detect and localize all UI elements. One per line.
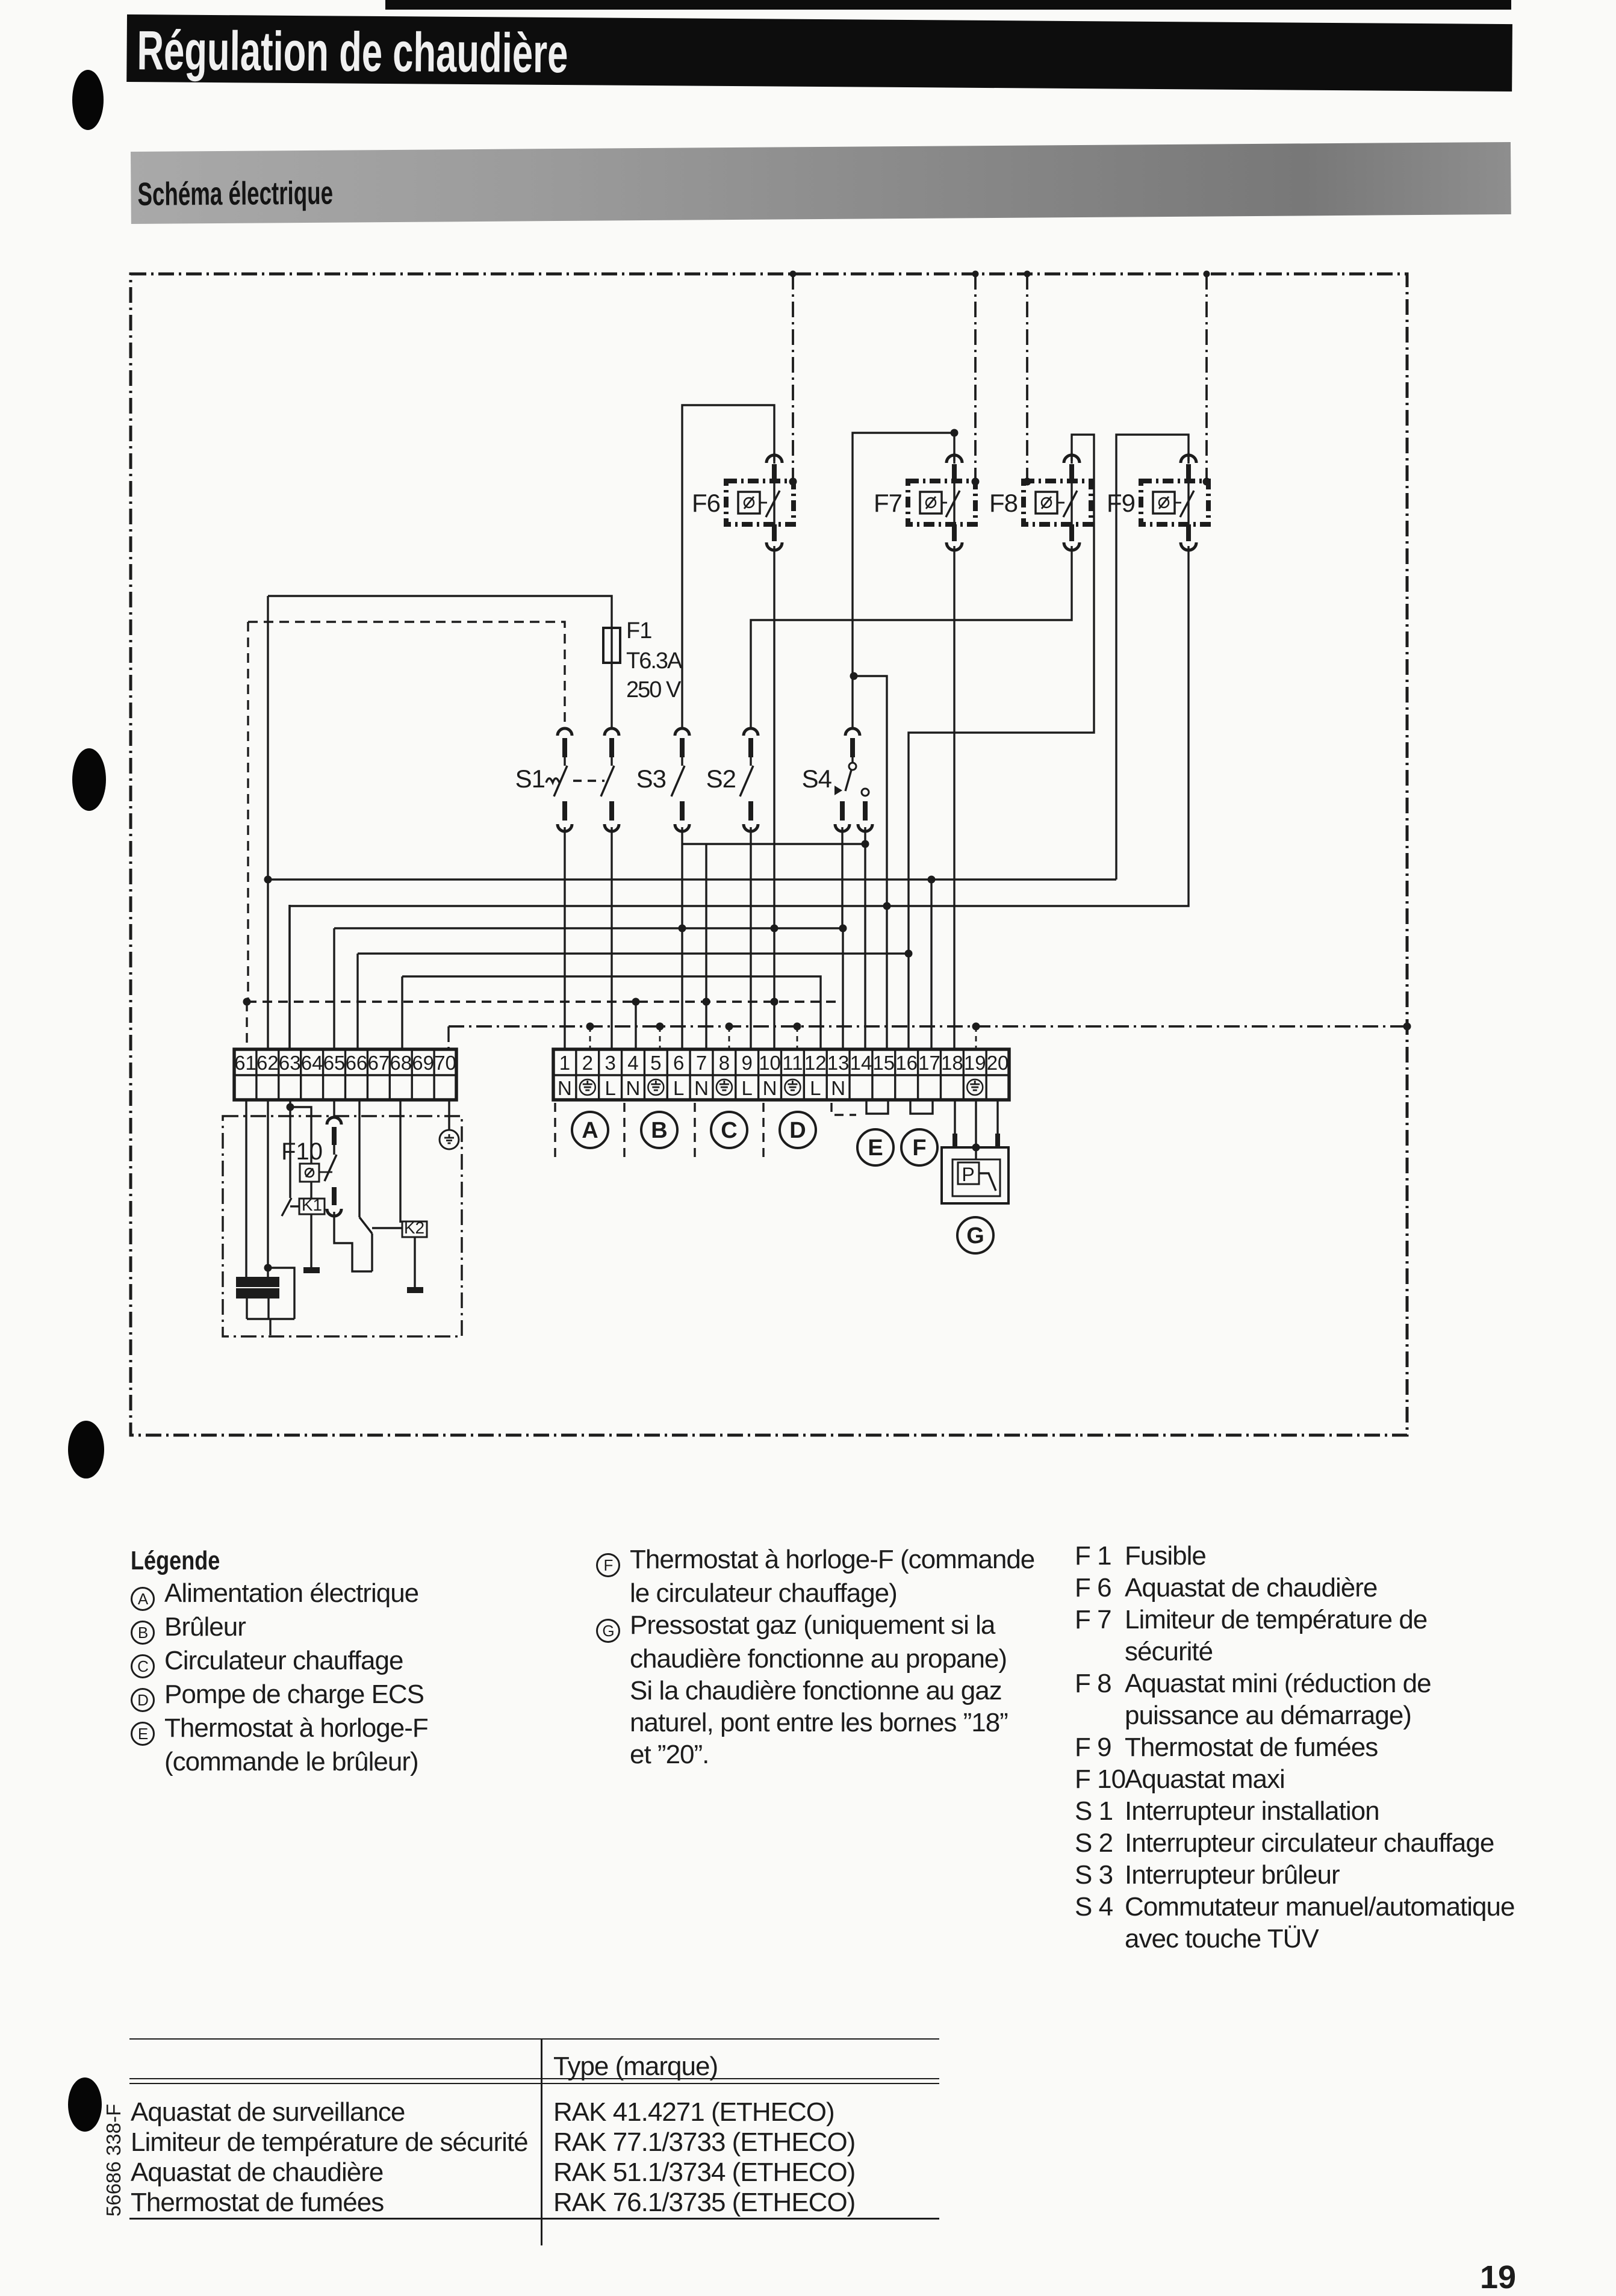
svg-text:S3: S3 bbox=[636, 765, 666, 793]
svg-text:N: N bbox=[626, 1077, 641, 1099]
svg-text:F9: F9 bbox=[1107, 489, 1135, 517]
svg-text:13: 13 bbox=[827, 1052, 850, 1074]
svg-text:10: 10 bbox=[759, 1052, 781, 1074]
svg-text:11: 11 bbox=[782, 1052, 803, 1074]
svg-text:12: 12 bbox=[804, 1052, 827, 1074]
svg-text:L: L bbox=[673, 1077, 684, 1099]
svg-text:F8: F8 bbox=[989, 489, 1018, 517]
svg-text:15: 15 bbox=[872, 1052, 895, 1074]
svg-text:69: 69 bbox=[412, 1052, 434, 1074]
svg-text:F: F bbox=[912, 1135, 926, 1161]
svg-text:250 V: 250 V bbox=[626, 677, 682, 703]
svg-text:68: 68 bbox=[390, 1052, 412, 1074]
svg-text:A: A bbox=[582, 1118, 598, 1143]
svg-text:N: N bbox=[763, 1077, 777, 1099]
svg-text:S2: S2 bbox=[706, 765, 736, 793]
svg-text:4: 4 bbox=[627, 1052, 638, 1074]
svg-text:L: L bbox=[604, 1077, 615, 1099]
svg-text:1: 1 bbox=[559, 1052, 570, 1074]
svg-text:16: 16 bbox=[895, 1052, 918, 1074]
svg-text:S1: S1 bbox=[515, 765, 545, 793]
svg-text:5: 5 bbox=[650, 1052, 661, 1074]
svg-text:9: 9 bbox=[742, 1052, 753, 1074]
svg-text:S4: S4 bbox=[802, 765, 832, 793]
svg-text:7: 7 bbox=[696, 1052, 707, 1074]
svg-text:F6: F6 bbox=[692, 489, 720, 517]
svg-text:6: 6 bbox=[673, 1052, 684, 1074]
svg-text:P: P bbox=[962, 1164, 974, 1185]
svg-text:65: 65 bbox=[323, 1052, 346, 1074]
svg-text:19: 19 bbox=[964, 1052, 986, 1074]
svg-text:66: 66 bbox=[346, 1052, 368, 1074]
svg-text:F10: F10 bbox=[281, 1138, 323, 1165]
svg-text:B: B bbox=[651, 1118, 667, 1143]
svg-text:N: N bbox=[831, 1077, 845, 1099]
svg-text:D: D bbox=[789, 1118, 806, 1143]
svg-text:17: 17 bbox=[918, 1052, 940, 1074]
svg-text:T6.3A: T6.3A bbox=[626, 648, 683, 674]
svg-text:18: 18 bbox=[941, 1052, 963, 1074]
svg-text:F1: F1 bbox=[626, 618, 651, 644]
svg-text:64: 64 bbox=[301, 1052, 323, 1074]
svg-text:70: 70 bbox=[434, 1052, 456, 1074]
svg-text:G: G bbox=[966, 1223, 984, 1249]
svg-text:14: 14 bbox=[850, 1052, 872, 1074]
svg-text:L: L bbox=[810, 1077, 821, 1099]
svg-text:C: C bbox=[721, 1118, 737, 1143]
svg-text:61: 61 bbox=[234, 1052, 256, 1074]
svg-text:62: 62 bbox=[256, 1052, 279, 1074]
svg-text:E: E bbox=[868, 1135, 883, 1161]
svg-text:N: N bbox=[558, 1077, 572, 1099]
svg-text:2: 2 bbox=[582, 1052, 593, 1074]
svg-text:3: 3 bbox=[604, 1052, 615, 1074]
svg-text:67: 67 bbox=[367, 1052, 390, 1074]
svg-text:20: 20 bbox=[987, 1052, 1009, 1074]
svg-text:K2: K2 bbox=[404, 1218, 424, 1237]
svg-text:63: 63 bbox=[279, 1052, 301, 1074]
svg-text:F7: F7 bbox=[874, 489, 902, 517]
svg-text:L: L bbox=[742, 1077, 753, 1099]
svg-text:N: N bbox=[694, 1077, 709, 1099]
svg-text:8: 8 bbox=[719, 1052, 730, 1074]
